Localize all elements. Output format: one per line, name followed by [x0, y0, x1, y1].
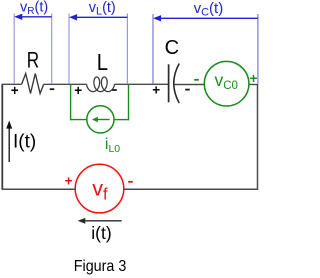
svg-text:i(t): i(t): [91, 223, 111, 243]
svg-text:I(t): I(t): [13, 131, 36, 152]
green wire iL0 loop right vertical: [128, 85, 130, 121]
R minus sign: [50, 88, 55, 90]
wire top: left to resistor: [2, 83, 22, 85]
vR arrow tick left: [13, 14, 15, 85]
vC arrow line: [159, 17, 258, 19]
wire resistor to inductor: [44, 83, 87, 85]
svg-text:+: +: [11, 83, 19, 98]
L minus sign: [112, 89, 117, 91]
vC arrow tick left: [152, 14, 154, 84]
I(t) arrow: [8, 126, 10, 162]
current source iL0 circle: [87, 106, 114, 133]
svg-text:+: +: [65, 173, 73, 188]
wire left vertical: [1, 84, 3, 190]
svg-text:iL0: iL0: [105, 136, 120, 155]
Vf minus sign: [128, 181, 133, 183]
svg-text:vC(t): vC(t): [194, 0, 224, 18]
C minus sign: [185, 89, 190, 91]
green wire iL0 loop bottom right: [114, 119, 129, 121]
svg-text:+: +: [74, 83, 82, 98]
wire capacitor to vC0 source: [174, 84, 204, 86]
svg-text:vL(t): vL(t): [89, 0, 116, 18]
vL arrow tick right: [126, 14, 128, 85]
current source iL0 arrow: [97, 119, 110, 121]
green wire iL0 loop left vertical: [70, 85, 72, 121]
voltage source vC0 circle: [204, 61, 249, 106]
svg-text:vf: vf: [92, 176, 108, 203]
svg-text:+: +: [152, 82, 160, 97]
vL arrow tick left: [68, 14, 70, 85]
vR arrow tick right: [51, 14, 53, 85]
svg-text:C: C: [165, 37, 179, 59]
resistor R zigzag: [22, 74, 44, 94]
svg-text:+: +: [250, 71, 258, 86]
vR arrow line: [21, 16, 52, 18]
voltage source Vf circle: [75, 164, 124, 213]
wire vC0 to right corner: [249, 84, 258, 86]
vC arrow tick right: [257, 14, 259, 84]
svg-text:vR(t): vR(t): [20, 0, 48, 17]
wire inductor to capacitor: [115, 83, 169, 85]
vL arrow line: [75, 16, 127, 18]
svg-text:vC0: vC0: [215, 70, 238, 92]
capacitor C right curved plate: [174, 64, 179, 104]
wire bottom right segment: [124, 188, 259, 190]
i(t) arrow: [85, 220, 122, 222]
capacitor C left plate: [168, 64, 170, 102]
inductor L coil: [87, 77, 115, 92]
wire right vertical: [257, 85, 259, 191]
svg-text:R: R: [27, 48, 39, 73]
wire bottom left segment: [2, 188, 76, 190]
svg-text:L: L: [97, 49, 108, 75]
green wire iL0 loop bottom left: [70, 119, 87, 121]
vC0 minus sign: [194, 79, 199, 81]
svg-text:Figura 3: Figura 3: [74, 258, 127, 275]
